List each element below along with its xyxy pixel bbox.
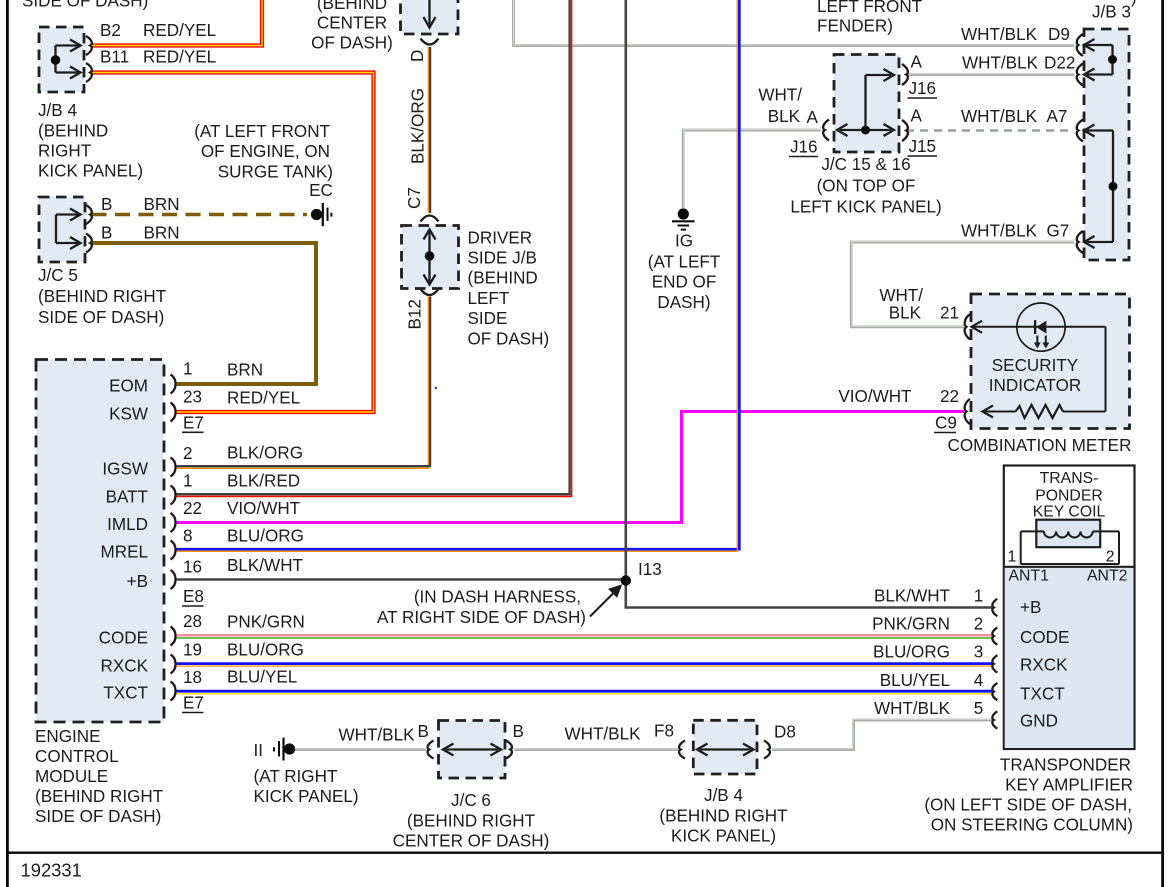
svg-text:8: 8 (183, 526, 193, 545)
svg-text:+B: +B (1020, 598, 1041, 617)
svg-text:4: 4 (974, 671, 984, 690)
svg-text:TRANS-: TRANS- (1040, 470, 1099, 487)
connector D (421, 39, 439, 45)
svg-text:TXCT: TXCT (1020, 684, 1065, 703)
svg-text:RED/YEL: RED/YEL (143, 21, 216, 40)
wire BLK/WHT from ECM +B pin 16 to node I13 (176, 578, 626, 581)
transponder key coil box (1036, 520, 1100, 548)
J/B 4 bottom internal double arrow (700, 748, 751, 750)
wire PNK/GRN from ECM CODE pin 28 to amplifier pin 2 (176, 635, 993, 638)
svg-text:WHT/BLK: WHT/BLK (962, 54, 1039, 73)
svg-text:BATT: BATT (106, 487, 149, 506)
engine control module box (36, 360, 164, 723)
svg-text:BRN: BRN (227, 360, 263, 379)
svg-text:EOM: EOM (109, 376, 148, 395)
svg-text:B11: B11 (100, 48, 129, 67)
svg-text:PONDER: PONDER (1035, 488, 1103, 505)
svg-text:(AT LEFT: (AT LEFT (648, 253, 721, 272)
svg-text:IGSW: IGSW (102, 460, 148, 479)
wire WHT/BLK from J/B 4 D8 to amplifier GND pin 5 (772, 719, 993, 749)
svg-text:22: 22 (940, 387, 959, 406)
wire BLK/RED from ECM BATT pin 1 up off page (176, 0, 572, 496)
svg-text:SIDE OF DASH): SIDE OF DASH) (22, 0, 148, 11)
ECM pin cups (171, 375, 176, 394)
DRIVER SIDE J/B internal arrows (428, 232, 430, 282)
svg-text:(ON TOP OF: (ON TOP OF (817, 177, 916, 196)
svg-text:WHT/BLK: WHT/BLK (874, 699, 951, 718)
svg-text:21: 21 (940, 304, 959, 323)
svg-text:J16: J16 (909, 79, 937, 98)
svg-text:LEFT: LEFT (468, 289, 510, 308)
svg-text:E7: E7 (183, 694, 204, 713)
junction block DRIVER SIDE J/B (behind left side of dash) (402, 226, 459, 289)
svg-text:FENDER): FENDER) (817, 17, 893, 36)
svg-text:BRN: BRN (144, 224, 180, 243)
wire WHT/BLK to IG ground and J/C15 (683, 129, 821, 208)
junction connector J/C 5 (behind right side of dash) (39, 197, 85, 262)
svg-text:CODE: CODE (99, 628, 148, 647)
svg-text:OF DASH): OF DASH) (468, 329, 550, 348)
svg-text:D9: D9 (1048, 25, 1070, 44)
svg-text:BLK/ORG: BLK/ORG (409, 88, 428, 164)
wire WHT/BLK A7 (dashed, J/C15 to J/B3) (906, 129, 1070, 131)
svg-text:WHT/BLK: WHT/BLK (961, 221, 1038, 240)
svg-text:B: B (101, 224, 112, 243)
connector B12 (421, 289, 439, 295)
svg-text:GND: GND (1020, 712, 1058, 731)
svg-text:TXCT: TXCT (103, 683, 148, 702)
svg-text:J15: J15 (909, 137, 937, 156)
svg-text:I13: I13 (638, 560, 662, 579)
svg-text:(BEHIND RIGHT: (BEHIND RIGHT (659, 806, 788, 825)
arrow pointing to node I13 (590, 593, 614, 617)
svg-text:TRANSPONDER: TRANSPONDER (1000, 755, 1131, 774)
svg-text:C7: C7 (405, 187, 424, 209)
svg-text:WHT/BLK: WHT/BLK (565, 725, 642, 744)
wire BRN dashed to EC ground (92, 213, 308, 217)
svg-text:(AT LEFT FRONT: (AT LEFT FRONT (194, 122, 330, 141)
svg-text:BLU/ORG: BLU/ORG (227, 526, 304, 545)
svg-text:WHT/BLK: WHT/BLK (961, 107, 1038, 126)
svg-text:OF ENGINE, ON: OF ENGINE, ON (201, 142, 330, 161)
svg-text:A: A (911, 107, 923, 126)
svg-text:KSW: KSW (109, 404, 149, 423)
svg-text:E8: E8 (183, 587, 204, 606)
J/C 15 & 16 internal circuit (864, 75, 866, 130)
svg-text:CENTER OF DASH): CENTER OF DASH) (393, 831, 550, 850)
svg-text:BLK: BLK (889, 304, 922, 323)
combination meter pin 21 cup (965, 314, 970, 339)
svg-text:B: B (418, 722, 429, 741)
svg-text:LEFT FRONT: LEFT FRONT (817, 0, 923, 16)
top center J/B arrow down (428, 0, 430, 25)
J/B 3 internal circuit A7-G7 (1112, 131, 1114, 243)
svg-text:28: 28 (183, 612, 202, 631)
svg-text:(BEHIND RIGHT: (BEHIND RIGHT (35, 787, 164, 806)
wire RED/YEL B11 to ECM KSW pin 23 (92, 73, 374, 413)
svg-text:J16: J16 (790, 138, 818, 157)
wire WHT/BLK from J/C 6 to J/B 4 F8 (514, 747, 678, 751)
junction dot J/B4 top-left (51, 55, 61, 65)
svg-text:J/B 4: J/B 4 (38, 101, 77, 120)
svg-text:KICK PANEL): KICK PANEL) (254, 787, 359, 806)
svg-text:G7: G7 (1047, 221, 1070, 240)
wire WHT/BLK D9 (from top, gray) (514, 0, 1075, 46)
svg-text:SECURITY: SECURITY (992, 356, 1079, 375)
wire WHT/BLK D22 (J/C16 to J/B3) (906, 72, 1075, 76)
svg-text:WHT/: WHT/ (758, 86, 802, 105)
svg-text:2: 2 (1106, 549, 1115, 566)
svg-text:SIDE: SIDE (468, 309, 508, 328)
junction dot J/C 15 & 16 (861, 126, 870, 135)
svg-text:SIDE OF DASH): SIDE OF DASH) (35, 807, 161, 826)
svg-text:J/B 3: J/B 3 (1092, 3, 1131, 22)
svg-text:A7: A7 (1047, 107, 1068, 126)
J/C 6 internal double arrow (446, 748, 498, 750)
svg-text:AT RIGHT SIDE OF DASH): AT RIGHT SIDE OF DASH) (377, 608, 586, 627)
stray blue dot artifact (435, 387, 437, 389)
ground IG (at left end of dash) (672, 208, 695, 229)
svg-text:BLU/YEL: BLU/YEL (880, 671, 950, 690)
svg-text:J/B 4: J/B 4 (704, 786, 743, 805)
svg-text:J/C 15 & 16: J/C 15 & 16 (821, 155, 910, 174)
svg-text:VIO/WHT: VIO/WHT (227, 499, 301, 518)
svg-text:PNK/GRN: PNK/GRN (227, 612, 305, 631)
ground EC (at left front of engine, on surge tank) (311, 203, 332, 226)
svg-text:1: 1 (183, 471, 193, 490)
svg-text:BLK/ORG: BLK/ORG (227, 444, 303, 463)
J/C5 internal circuit (55, 215, 57, 244)
junction block J/B 4 box (bottom, behind right kick panel) (693, 720, 757, 774)
svg-text:D8: D8 (774, 723, 796, 742)
svg-text:II: II (254, 741, 264, 760)
wire BLU/ORG from ECM RXCK pin 19 to amplifier pin 3 (176, 664, 993, 667)
svg-text:J/C 6: J/C 6 (451, 791, 491, 810)
svg-text:16: 16 (183, 557, 202, 576)
svg-text:KEY AMPLIFIER: KEY AMPLIFIER (1005, 775, 1133, 794)
combination meter pin 22 cup (965, 399, 970, 424)
svg-text:D: D (408, 50, 427, 62)
svg-text:1: 1 (974, 587, 984, 606)
junction connector J/C 6 box (behind right center of dash) (439, 721, 506, 779)
svg-text:5: 5 (974, 699, 984, 718)
J/B4 top-left internal circuit (54, 46, 56, 73)
svg-text:MREL: MREL (101, 542, 149, 561)
junction block J/B 4 (top left, behind right kick panel) (39, 27, 84, 92)
svg-text:(ON LEFT SIDE OF DASH,: (ON LEFT SIDE OF DASH, (924, 796, 1132, 815)
wire VIO/WHT from ECM IMLD pin 22 to combination meter pin 22 (176, 412, 964, 523)
svg-text:1: 1 (183, 360, 193, 379)
svg-text:VIO/WHT: VIO/WHT (838, 387, 912, 406)
svg-text:B12: B12 (406, 299, 425, 329)
svg-text:WHT/BLK: WHT/BLK (339, 726, 416, 745)
junction dot J/B 3 lower (1109, 182, 1118, 191)
svg-text:F8: F8 (654, 722, 674, 741)
svg-text:OF DASH): OF DASH) (311, 34, 393, 53)
wire BLK/WHT from node I13 to amplifier pin 1 (626, 580, 993, 608)
svg-text:RED/YEL: RED/YEL (227, 388, 300, 407)
page border left (6, 0, 9, 887)
svg-text:BLU/YEL: BLU/YEL (227, 667, 297, 686)
svg-text:EC: EC (309, 181, 333, 200)
svg-text:(BEHIND: (BEHIND (317, 0, 387, 13)
security indicator internal wire + LED feed (972, 326, 1106, 328)
wire BLK/ORG vertical (D to C7) (428, 47, 430, 213)
svg-text:(BEHIND RIGHT: (BEHIND RIGHT (407, 811, 536, 830)
svg-text:MODULE: MODULE (35, 767, 108, 786)
svg-text:BRN: BRN (144, 195, 180, 214)
ground II (at right kick panel) (274, 738, 295, 761)
svg-text:LEFT KICK PANEL): LEFT KICK PANEL) (790, 197, 941, 216)
wire WHT/BLK G7 to combination meter pin 21 (851, 241, 1074, 326)
junction connector J/C 15 & 16 box (on top of left kick panel) (834, 55, 899, 153)
wire BLU/YEL from ECM TXCT pin 18 to amplifier pin 4 (176, 691, 993, 694)
svg-text:BLU/ORG: BLU/ORG (227, 640, 304, 659)
svg-text:BLK: BLK (768, 107, 801, 126)
svg-text:SIDE J/B: SIDE J/B (468, 249, 537, 268)
junction block top center (behind center of dash) (401, 0, 459, 34)
transponder key coil windings and pins (1021, 531, 1119, 564)
junction block J/B 3 box (1084, 29, 1129, 260)
svg-text:E7: E7 (183, 414, 204, 433)
svg-text:(AT RIGHT: (AT RIGHT (254, 767, 338, 786)
svg-text:CODE: CODE (1020, 628, 1069, 647)
LED security indicator (1017, 303, 1065, 351)
svg-text:WHT/: WHT/ (879, 286, 923, 305)
svg-text:A: A (911, 53, 923, 72)
svg-text:RXCK: RXCK (1020, 655, 1068, 674)
svg-text:ON STEERING COLUMN): ON STEERING COLUMN) (931, 816, 1133, 835)
svg-text:SIDE OF DASH): SIDE OF DASH) (38, 308, 164, 327)
wire WHT/BLK from ground II to J/C 6 (295, 747, 426, 751)
svg-text:D22: D22 (1044, 54, 1075, 73)
svg-text:(BEHIND RIGHT: (BEHIND RIGHT (38, 287, 167, 306)
svg-text:END OF: END OF (652, 273, 717, 292)
transponder key amplifier outer box (1004, 466, 1135, 750)
svg-text:ANT2: ANT2 (1087, 568, 1127, 585)
svg-text:B: B (101, 195, 112, 214)
svg-text:J/C 5: J/C 5 (38, 266, 78, 285)
wire RED/YEL B2 (92, 0, 263, 46)
J/B 3 internal circuit D9-D22 (1111, 45, 1113, 75)
svg-text:22: 22 (183, 499, 202, 518)
svg-text:IG: IG (675, 231, 693, 250)
svg-text:ENGINE: ENGINE (35, 727, 101, 746)
page border bottom rule (6, 852, 1164, 854)
svg-text:RIGHT: RIGHT (38, 142, 92, 161)
wire BRN to ECM EOM pin 1 (92, 243, 317, 384)
svg-text:KICK PANEL): KICK PANEL) (671, 827, 776, 846)
svg-text:+B: +B (127, 572, 148, 591)
svg-text:19: 19 (183, 640, 202, 659)
svg-text:BLK/WHT: BLK/WHT (227, 556, 304, 575)
svg-text:2: 2 (974, 615, 984, 634)
svg-text:2: 2 (183, 444, 193, 463)
svg-text:CENTER: CENTER (317, 14, 387, 33)
svg-text:DASH): DASH) (657, 293, 710, 312)
svg-text:DRIVER: DRIVER (468, 228, 533, 247)
junction dot DRIVER SIDE J/B (425, 251, 435, 261)
svg-text:IMLD: IMLD (107, 515, 148, 534)
node I13 junction dot (621, 575, 631, 585)
amplifier pin cups 1-5 (992, 599, 997, 616)
svg-text:(BEHIND: (BEHIND (38, 122, 108, 141)
svg-text:BLK/WHT: BLK/WHT (874, 587, 951, 606)
svg-text:3: 3 (974, 642, 984, 661)
svg-text:COMBINATION METER: COMBINATION METER (948, 436, 1132, 455)
wire BLU/ORG from ECM MREL pin 8 up off page (176, 0, 739, 551)
svg-text:(BEHIND: (BEHIND (468, 269, 538, 288)
resistor (1016, 405, 1064, 418)
wire BLK/ORG from B12 down to ECM IGSW pin 2 (176, 297, 431, 469)
security indicator box (combination meter) (971, 294, 1130, 429)
svg-text:18: 18 (183, 668, 202, 687)
svg-text:KEY COIL: KEY COIL (1033, 504, 1106, 521)
svg-text:B2: B2 (100, 21, 121, 40)
svg-text:(IN DASH HARNESS,: (IN DASH HARNESS, (414, 588, 581, 607)
svg-text:INDICATOR: INDICATOR (989, 376, 1081, 395)
transponder key amplifier lower (blue) section (1005, 567, 1134, 748)
svg-text:B: B (513, 722, 524, 741)
svg-text:WHT/BLK: WHT/BLK (961, 25, 1038, 44)
svg-text:SURGE TANK): SURGE TANK) (218, 163, 333, 182)
wire BLK/WHT vertical from top to node I13 (624, 0, 627, 580)
svg-text:): ) (1131, 0, 1137, 7)
svg-text:CONTROL: CONTROL (35, 747, 119, 766)
svg-text:23: 23 (183, 388, 202, 407)
svg-text:BLU/ORG: BLU/ORG (873, 642, 950, 661)
svg-text:KICK PANEL): KICK PANEL) (38, 162, 143, 181)
connector C7 (421, 216, 439, 222)
svg-text:BLK/RED: BLK/RED (227, 471, 300, 490)
svg-text:1: 1 (1008, 549, 1017, 566)
svg-text:A: A (807, 108, 819, 127)
svg-text:PNK/GRN: PNK/GRN (872, 615, 950, 634)
svg-text:C9: C9 (935, 414, 957, 433)
svg-text:ANT1: ANT1 (1009, 568, 1050, 585)
svg-text:RXCK: RXCK (101, 656, 149, 675)
page border right (1161, 0, 1164, 887)
svg-text:RED/YEL: RED/YEL (143, 48, 216, 67)
svg-text:192331: 192331 (21, 860, 82, 881)
junction dot J/B 3 upper (1108, 55, 1117, 64)
